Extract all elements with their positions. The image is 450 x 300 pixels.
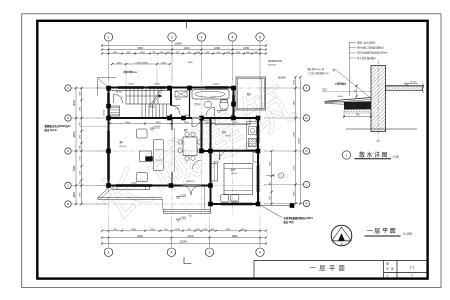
svg-text:2300: 2300 [233, 122, 239, 124]
svg-text:300: 300 [188, 216, 191, 218]
svg-text:±0.000: ±0.000 [410, 81, 417, 83]
svg-text:2040: 2040 [243, 46, 249, 50]
svg-text:B: B [67, 202, 69, 206]
svg-text:4500: 4500 [137, 46, 143, 50]
svg-text:C0812: C0812 [154, 84, 161, 86]
svg-text:E: E [305, 116, 307, 120]
svg-text:F: F [306, 86, 308, 90]
svg-text:5: 5 [259, 36, 261, 40]
svg-text:3: 3 [201, 36, 203, 40]
svg-text:1850: 1850 [72, 191, 76, 197]
svg-text:60: 60 [354, 90, 356, 92]
svg-text:3600: 3600 [232, 234, 238, 238]
svg-text:1500: 1500 [140, 52, 146, 54]
svg-text:±0.000: ±0.000 [221, 109, 228, 111]
svg-text:M0921: M0921 [116, 92, 123, 94]
svg-text:2400: 2400 [226, 229, 232, 231]
svg-text:一层平面: 一层平面 [367, 228, 398, 235]
svg-text:270X7=1890: 270X7=1890 [135, 62, 148, 64]
svg-text:F: F [67, 86, 69, 90]
svg-text:300X300: 300X300 [268, 65, 277, 67]
svg-text:3300: 3300 [188, 62, 194, 64]
svg-text:M0921: M0921 [149, 107, 156, 109]
svg-text:1: 1 [108, 251, 110, 255]
svg-text:3450: 3450 [72, 165, 76, 171]
svg-text:7: 7 [411, 274, 413, 278]
svg-text:1340: 1340 [156, 122, 162, 124]
svg-text:M0921: M0921 [214, 162, 220, 164]
svg-text:M0821: M0821 [176, 99, 182, 101]
svg-text:-0.060: -0.060 [337, 96, 344, 98]
svg-text:E: E [67, 116, 69, 120]
svg-text:2: 2 [171, 251, 173, 255]
svg-text:1200: 1200 [175, 229, 181, 231]
svg-text:一层平面: 一层平面 [310, 265, 349, 272]
svg-text:1300: 1300 [184, 122, 190, 124]
svg-text:-0.600: -0.600 [180, 217, 187, 219]
svg-text:28.1m²: 28.1m² [119, 145, 126, 148]
svg-text:2200: 2200 [214, 46, 220, 50]
svg-text:3: 3 [209, 251, 211, 255]
svg-text:C0912: C0912 [104, 109, 106, 116]
svg-text:M: M [273, 175, 275, 178]
svg-text:C0912: C0912 [213, 84, 220, 86]
svg-text:1:30: 1:30 [393, 155, 399, 159]
svg-text:-0.020: -0.020 [180, 195, 187, 197]
svg-text:2400: 2400 [131, 229, 137, 231]
svg-text:3000: 3000 [72, 100, 76, 106]
svg-text:北: 北 [340, 242, 343, 246]
svg-text:1600: 1600 [150, 229, 156, 231]
svg-text:1:100: 1:100 [403, 232, 412, 236]
svg-text:3460: 3460 [113, 52, 119, 54]
svg-text:C2415: C2415 [231, 201, 238, 203]
svg-text:2: 2 [171, 36, 173, 40]
svg-text:1260: 1260 [161, 62, 167, 64]
svg-text:3300: 3300 [72, 131, 76, 137]
svg-text:B: B [305, 202, 307, 206]
svg-text:散水详图: 散水详图 [359, 151, 389, 159]
svg-text:4.4m²: 4.4m² [210, 96, 215, 99]
svg-text:4: 4 [232, 36, 234, 40]
svg-text:C0812: C0812 [128, 84, 135, 86]
svg-text:11040: 11040 [179, 240, 187, 244]
svg-text:11040: 11040 [174, 42, 182, 46]
svg-text:TLM2122: TLM2122 [185, 181, 195, 183]
svg-text:1900: 1900 [125, 122, 131, 124]
svg-text:C0612: C0612 [184, 115, 191, 117]
svg-text:1350: 1350 [117, 62, 123, 64]
svg-text:2100: 2100 [184, 46, 190, 50]
svg-text:J-7: J-7 [410, 266, 415, 270]
svg-text:1: 1 [108, 36, 110, 40]
svg-text:12660: 12660 [298, 137, 300, 144]
svg-text:4: 4 [259, 251, 261, 255]
svg-text:勒脚做法见苏J9501改22: 勒脚做法见苏J9501改22 [45, 124, 72, 128]
svg-text:±0.000: ±0.000 [154, 126, 161, 128]
svg-text:2700: 2700 [188, 234, 194, 238]
svg-text:做法 60mm: 做法 60mm [44, 128, 57, 132]
svg-text:C2427: C2427 [131, 182, 138, 184]
svg-text:4500: 4500 [137, 234, 143, 238]
svg-text:8.9m²: 8.9m² [225, 134, 231, 137]
svg-text:15.0m²: 15.0m² [231, 172, 238, 175]
